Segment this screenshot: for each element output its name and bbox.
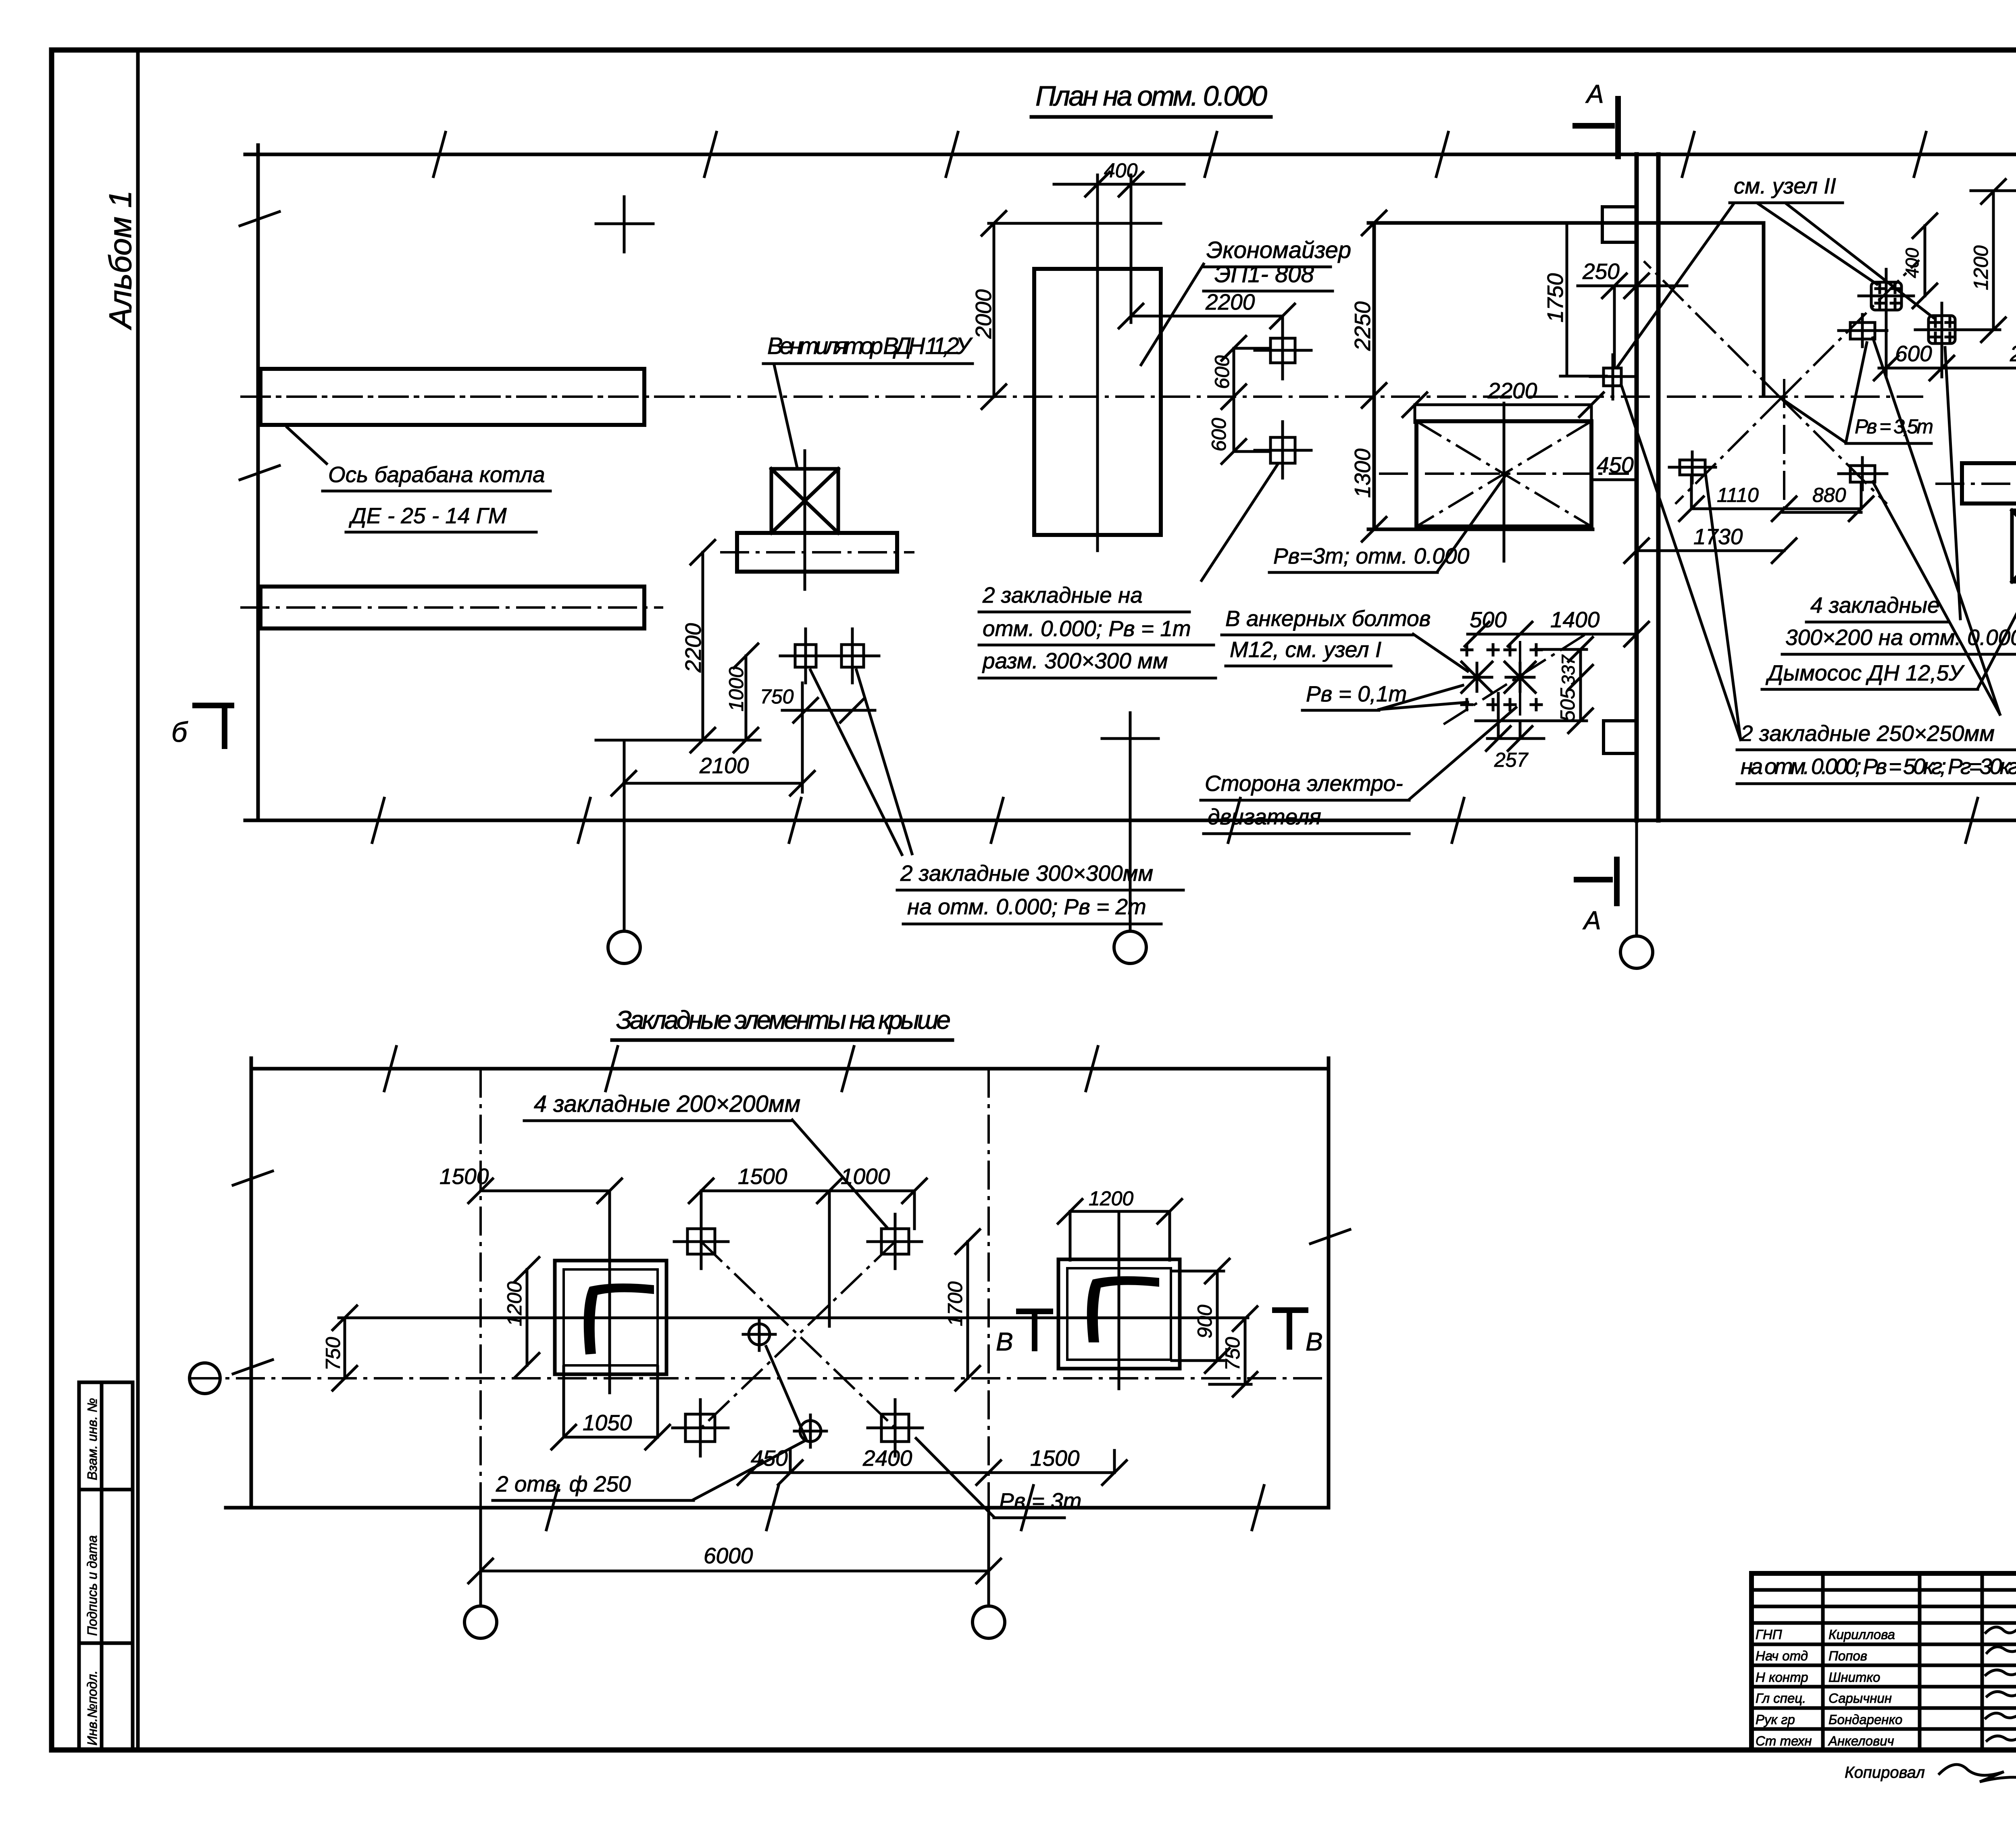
roof plate SW bbox=[673, 1400, 728, 1456]
sm uzel underline bbox=[1730, 202, 1843, 204]
dim 2250 ticks bbox=[1362, 211, 1386, 541]
dim 1110 880 line bbox=[1679, 497, 1873, 521]
svg-text:План на отм. 0.000: План на отм. 0.000 bbox=[1035, 80, 1267, 112]
big plate 1 centerline bbox=[608, 1191, 611, 1393]
svg-text:2200: 2200 bbox=[1487, 378, 1537, 403]
2 zakl underline1 bbox=[1737, 749, 2016, 751]
bolt cluster axis diagonal bbox=[1441, 635, 1585, 726]
svg-text:на отм. 0.000; Рв = 50кг; Рг: на отм. 0.000; Рв = 50кг; Рг=30кг bbox=[1741, 754, 2016, 779]
svg-text:750: 750 bbox=[322, 1337, 344, 1371]
dim 900 vertical plate2 bbox=[1205, 1259, 1229, 1373]
extension line right of 400 bbox=[1130, 175, 1133, 322]
svg-text:2000: 2000 bbox=[971, 289, 996, 339]
plan title underline bbox=[1031, 115, 1271, 119]
dim extensions 1110 bbox=[1691, 475, 1861, 509]
svg-text:450: 450 bbox=[751, 1446, 788, 1471]
anchor bolt note underline2 bbox=[1226, 665, 1391, 668]
svg-text:257: 257 bbox=[1494, 749, 1529, 771]
top boundary wall line bbox=[245, 153, 2016, 156]
svg-text:400: 400 bbox=[1902, 248, 1922, 278]
embedded plate right of fan bbox=[827, 629, 879, 683]
Pv 3.5 underline bbox=[1846, 442, 1931, 445]
2 zakl leaders bbox=[1621, 385, 1741, 740]
svg-text:Закладные элементы на крыше: Закладные элементы на крыше bbox=[616, 1005, 951, 1034]
dim 1050 extensions bbox=[564, 1367, 658, 1437]
grid bubble 3 bbox=[1620, 936, 1653, 968]
machine2 horizontal centerline bbox=[1379, 472, 1629, 475]
svg-text:400: 400 bbox=[1104, 159, 1138, 182]
svg-text:Инв.№подл.: Инв.№подл. bbox=[85, 1671, 100, 1746]
roof bottom boundary bbox=[226, 1506, 1329, 1510]
MAIN PLAN bbox=[240, 79, 2016, 968]
svg-text:600: 600 bbox=[1208, 418, 1230, 451]
svg-text:1200: 1200 bbox=[1089, 1187, 1133, 1210]
note underline1 bbox=[979, 611, 1189, 614]
dim 750 vertical bbox=[333, 1306, 357, 1390]
svg-text:отм. 0.000; Рв = 1т: отм. 0.000; Рв = 1т bbox=[983, 616, 1191, 641]
stamp outline bbox=[79, 1382, 133, 1750]
svg-text:двигателя: двигателя bbox=[1208, 804, 1321, 829]
section mark B left: bar bbox=[192, 705, 234, 749]
fan base rectangle bbox=[737, 533, 897, 572]
anchor note leader bbox=[1413, 634, 1468, 671]
note storona underline2 bbox=[1204, 832, 1409, 835]
economizer vertical centerline bbox=[1096, 175, 1099, 551]
small plate P4 bbox=[1839, 458, 1887, 490]
dim 250 extension bbox=[1613, 286, 1616, 368]
4 zakladnye underline2 bbox=[1782, 653, 2016, 656]
4 zakladnye leader bbox=[1945, 347, 1960, 619]
grid crosshair column 2 bbox=[1102, 713, 1158, 766]
roof plate NE bbox=[868, 1214, 922, 1269]
dim 400 line bbox=[1054, 172, 1184, 196]
roof left bubble bbox=[190, 1363, 220, 1394]
extension line top of 2000 bbox=[989, 222, 1161, 225]
exhauster X body bbox=[2012, 510, 2016, 582]
svg-text:Рв = 0,1т: Рв = 0,1т bbox=[1306, 681, 1407, 706]
svg-text:1500: 1500 bbox=[439, 1164, 489, 1189]
svg-text:Ст техн: Ст техн bbox=[1756, 1733, 1812, 1748]
svg-text:2250: 2250 bbox=[1350, 301, 1375, 351]
svg-text:Дымосос ДН 12,5У: Дымосос ДН 12,5У bbox=[1765, 660, 1965, 685]
svg-text:на отм. 0.000; Рв = 2т: на отм. 0.000; Рв = 2т bbox=[907, 894, 1146, 919]
main horizontal axis dash-dot bbox=[242, 395, 1923, 398]
svg-text:Рук гр: Рук гр bbox=[1756, 1712, 1795, 1727]
economizer label underline2 bbox=[1204, 290, 1333, 293]
roof top boundary bbox=[251, 1067, 1329, 1071]
small plate P3 bbox=[1839, 314, 1887, 347]
dim 600 600 ticks bbox=[1234, 348, 1270, 451]
hole 1 bbox=[743, 1318, 775, 1350]
svg-text:250: 250 bbox=[1582, 259, 1620, 284]
machine2 X diagonals dash-dot bbox=[1416, 421, 1591, 526]
svg-text:1500: 1500 bbox=[1030, 1446, 1080, 1471]
grid bubble 1 bbox=[608, 931, 640, 963]
boiler drum axis lower bbox=[240, 606, 663, 609]
roof axis column A solid to bubble bbox=[479, 1508, 482, 1606]
roof left slashes bbox=[233, 1171, 273, 1374]
svg-text:4 закладные: 4 закладные bbox=[1810, 593, 1940, 618]
svg-text:1700: 1700 bbox=[944, 1282, 966, 1326]
svg-text:1500: 1500 bbox=[738, 1164, 787, 1189]
svg-text:2200: 2200 bbox=[1205, 289, 1255, 314]
roof plate NW bbox=[674, 1214, 728, 1269]
plate at wall top bbox=[1590, 355, 1635, 399]
svg-text:2100: 2100 bbox=[699, 753, 749, 778]
dim extensions bottom bbox=[790, 1450, 1114, 1473]
svg-text:В: В bbox=[996, 1327, 1013, 1356]
dim 1500 left line bbox=[469, 1179, 622, 1203]
dim 2000 extension bbox=[1971, 189, 2016, 192]
dim 1200 tick bbox=[1955, 329, 2000, 331]
svg-text:Бондаренко: Бондаренко bbox=[1829, 1712, 1902, 1727]
bolt cluster left X bbox=[1462, 662, 1492, 693]
dim 337 extension lines bbox=[1476, 649, 1587, 721]
svg-text:Ось барабана котла: Ось барабана котла bbox=[328, 462, 545, 487]
PLAN RIGHT PART bbox=[171, 154, 2016, 915]
Pv 3.5 leaders bbox=[1782, 343, 1867, 443]
stamp row dividers bbox=[79, 1488, 133, 1492]
leader to plate note 1 bbox=[810, 670, 902, 855]
interior wall line right bbox=[1656, 154, 1661, 820]
Pv 3t underline bbox=[994, 1517, 1064, 1519]
dim 1730 line bbox=[1624, 539, 1796, 563]
section mark A top: tick bbox=[1572, 96, 1618, 159]
title block left rows bbox=[1752, 1588, 2016, 1592]
section V marker left: bar bbox=[1016, 1311, 1053, 1351]
big plate 1 corner mark bbox=[584, 1284, 654, 1354]
dymosos leader bbox=[1978, 572, 2016, 689]
leader from lower plate to note bbox=[1202, 464, 1278, 580]
drum axis label underline1 bbox=[323, 490, 550, 493]
dim 1050 line bbox=[552, 1425, 670, 1449]
fan label leader bbox=[774, 365, 797, 468]
dim 750 line bbox=[782, 698, 875, 722]
svg-text:Сторона электро-: Сторона электро- bbox=[1205, 771, 1403, 796]
dim 750 vertical plate2 bbox=[1233, 1307, 1257, 1396]
fan VDN impeller square with X bbox=[771, 469, 838, 533]
svg-text:600: 600 bbox=[1895, 341, 1932, 366]
plate left of wall bbox=[1669, 452, 1716, 483]
fan base centerline bbox=[720, 551, 914, 553]
roof bubble A bbox=[464, 1606, 497, 1638]
storona leader bbox=[1409, 707, 1516, 799]
signatures bbox=[1986, 1627, 2016, 1741]
hole 2 bbox=[794, 1415, 827, 1447]
roof axis column B dashdot bbox=[987, 1069, 990, 1508]
grid bubble 2 bbox=[1114, 931, 1146, 963]
drum axis label underline2 bbox=[346, 531, 536, 534]
fan vertical centerline bbox=[804, 451, 806, 589]
svg-text:Взам. инв. №: Взам. инв. № bbox=[85, 1398, 100, 1480]
svg-text:2 отв. ф 250: 2 отв. ф 250 bbox=[496, 1471, 631, 1496]
note underline bbox=[1269, 571, 1437, 574]
svg-text:В: В bbox=[1306, 1327, 1323, 1356]
boiler drum axis upper bbox=[240, 395, 714, 398]
left boundary axis bbox=[256, 145, 260, 820]
dim 450 2400 1500 line bbox=[738, 1461, 1127, 1485]
svg-text:1000: 1000 bbox=[725, 667, 748, 712]
dim 2200 economizer line bbox=[1119, 304, 1295, 328]
svg-text:Н контр: Н контр bbox=[1756, 1670, 1808, 1685]
TITLE BLOCK bbox=[1752, 1573, 2016, 1788]
LEFT STAMP bbox=[79, 1382, 133, 1750]
Pv 3t leader bbox=[916, 1438, 994, 1517]
title block verticals bbox=[1821, 1573, 1825, 1750]
interior wall line left bbox=[1635, 154, 1639, 820]
wall pilaster top bbox=[1602, 207, 1637, 242]
big plate 1 outer bbox=[555, 1261, 666, 1374]
plate note underline1 bbox=[897, 889, 1183, 892]
dim 1200 plate1 vertical bbox=[515, 1257, 539, 1377]
svg-text:1000: 1000 bbox=[841, 1164, 890, 1189]
dim 2200 machine2 line bbox=[1403, 393, 1604, 417]
svg-text:А: А bbox=[1585, 79, 1604, 108]
fan label underline bbox=[763, 362, 973, 365]
foundation step horizontal bbox=[1560, 375, 1606, 378]
svg-text:1750: 1750 bbox=[1543, 273, 1568, 322]
svg-text:ЭП1- 808: ЭП1- 808 bbox=[1214, 261, 1314, 287]
anchor bolt note underline1 bbox=[1222, 634, 1413, 637]
dim 1200 plate2 extensions bbox=[1070, 1211, 1170, 1260]
svg-text:Сарычнин: Сарычнин bbox=[1829, 1691, 1892, 1706]
economizer body bbox=[1034, 269, 1161, 535]
bottom boundary line bbox=[245, 819, 2016, 822]
dim 257 extensions bbox=[1498, 693, 1520, 739]
big plate 2 corner mark bbox=[1087, 1276, 1159, 1342]
machine2 foundation left line bbox=[1372, 223, 1376, 529]
svg-text:337: 337 bbox=[1558, 654, 1579, 685]
dim 880 lower line bbox=[1783, 511, 1861, 514]
svg-text:880: 880 bbox=[1812, 484, 1846, 506]
svg-text:2200: 2200 bbox=[681, 623, 706, 673]
svg-text:2 закладные на: 2 закладные на bbox=[982, 583, 1143, 608]
left axis slashes bbox=[240, 212, 279, 480]
svg-text:2400: 2400 bbox=[862, 1446, 912, 1471]
big plate 2 outer bbox=[1058, 1259, 1180, 1369]
big plate 1 inner bbox=[564, 1269, 658, 1365]
svg-text:ГНП: ГНП bbox=[1756, 1627, 1782, 1642]
inner left column line bbox=[136, 50, 140, 1750]
dymosos underline bbox=[1762, 688, 1978, 691]
dim 400 vertical bbox=[1913, 214, 1937, 308]
dim 2000 economizer vertical bbox=[982, 211, 1006, 409]
machine2 vertical centerline bbox=[1503, 403, 1506, 561]
svg-text:Рв=3т; отм. 0.000: Рв=3т; отм. 0.000 bbox=[1273, 543, 1470, 568]
exhauster base rect bbox=[1962, 463, 2016, 504]
roof right boundary bbox=[1327, 1058, 1331, 1508]
machine2 dim extensions bbox=[1415, 405, 1591, 422]
dim 1700 vertical bbox=[956, 1230, 980, 1390]
Pv leaders bbox=[1379, 685, 1468, 709]
svg-text:2 закладные 250×250мм: 2 закладные 250×250мм bbox=[1740, 721, 1995, 746]
dim 1200 vertical bbox=[1981, 179, 2006, 342]
machine2 foundation right line bbox=[1762, 223, 1766, 395]
svg-text:6000: 6000 bbox=[704, 1543, 753, 1568]
dim extensions top bbox=[610, 1191, 914, 1326]
PLAN CENTER PART bbox=[242, 154, 1923, 834]
crosshair near column 1 top bbox=[596, 197, 653, 252]
svg-text:Попов: Попов bbox=[1829, 1648, 1867, 1663]
roof top slashes bbox=[384, 1047, 1098, 1091]
long leader from plates to note bbox=[1873, 338, 2000, 714]
drum axis label leader bbox=[287, 427, 327, 464]
roof axis column A dashdot bbox=[479, 1069, 482, 1508]
plate note underline2 bbox=[903, 923, 1161, 926]
machine2 foundation top line bbox=[1368, 221, 1764, 225]
ROOF DRAWING bbox=[190, 1005, 1350, 1638]
leader to plate note 2 bbox=[856, 670, 912, 854]
bolt cluster plus marks bbox=[1462, 645, 1541, 710]
embedded plate left of fan bbox=[780, 629, 831, 683]
roof X diagonals dashdot bbox=[701, 1242, 895, 1428]
note storona underline1 bbox=[1201, 799, 1409, 802]
svg-text:Подпись и дата: Подпись и дата bbox=[85, 1535, 100, 1636]
svg-text:505: 505 bbox=[1556, 688, 1579, 722]
svg-text:450: 450 bbox=[1597, 452, 1634, 477]
dim 250 line bbox=[1578, 274, 1687, 298]
bottom boundary slashes bbox=[372, 798, 2016, 843]
svg-text:В анкерных болтов: В анкерных болтов bbox=[1225, 606, 1431, 631]
dim base line at 1836 bbox=[596, 739, 760, 742]
dim 2100 extension bbox=[801, 683, 804, 792]
dim 600 2450 line bbox=[1874, 356, 2016, 380]
stamp divider vertical bbox=[100, 1382, 104, 1750]
long thin line through plates bbox=[339, 1317, 1248, 1319]
svg-text:Кириллова: Кириллова bbox=[1829, 1627, 1895, 1642]
grid line column 1 bbox=[623, 740, 626, 931]
boiler drum bar upper bbox=[260, 369, 644, 425]
dim 257 line bbox=[1486, 726, 1544, 751]
title block outline bbox=[1752, 1573, 2016, 1750]
svg-text:ДЕ - 25 - 14 ГМ: ДЕ - 25 - 14 ГМ bbox=[348, 503, 507, 528]
roof horizontal axis dashdot bbox=[190, 1377, 1329, 1379]
svg-text:Рв = 3т: Рв = 3т bbox=[999, 1488, 1081, 1513]
2 otv leaders bbox=[694, 1346, 806, 1500]
svg-text:750: 750 bbox=[1221, 1337, 1244, 1371]
note underline3 bbox=[979, 677, 1216, 680]
4 zakl leader bbox=[792, 1120, 887, 1228]
economizer label underline1 bbox=[1203, 266, 1331, 268]
svg-text:600: 600 bbox=[1211, 355, 1233, 389]
svg-text:М12, см. узел I: М12, см. узел I bbox=[1230, 637, 1381, 662]
plate column line bbox=[1281, 316, 1284, 341]
wall notch lower bbox=[1604, 721, 1637, 753]
svg-text:Экономайзер: Экономайзер bbox=[1206, 237, 1351, 263]
svg-text:1730: 1730 bbox=[1693, 524, 1743, 549]
big plate 2 inner bbox=[1067, 1268, 1171, 1360]
svg-text:Копировал: Копировал bbox=[1845, 1764, 1925, 1781]
plate2 dim ticks bbox=[1172, 1271, 1251, 1384]
roof title underline bbox=[612, 1038, 952, 1042]
svg-text:Анкелович: Анкелович bbox=[1828, 1733, 1894, 1748]
big plate 2 centerline bbox=[1118, 1211, 1120, 1389]
svg-text:А: А bbox=[1582, 906, 1601, 935]
dim 6000 line bbox=[469, 1559, 1001, 1583]
svg-text:500: 500 bbox=[1470, 607, 1507, 632]
svg-text:1050: 1050 bbox=[583, 1410, 632, 1435]
economizer label leader bbox=[1141, 264, 1204, 365]
dim 500 1400 line bbox=[1465, 622, 1649, 646]
dim 450 wall line bbox=[1591, 468, 1637, 492]
roof plate SE bbox=[868, 1400, 923, 1456]
svg-text:Альбом 1: Альбом 1 bbox=[102, 190, 138, 330]
bolt cluster right X bbox=[1505, 662, 1535, 693]
smoke exhauster vertical axis bbox=[1783, 379, 1785, 509]
smoke exhauster X axes dash-dot bbox=[1644, 260, 1919, 504]
grid line column 3 below wall bbox=[1635, 820, 1638, 936]
roof bubble B bbox=[973, 1606, 1005, 1638]
boiler drum bar lower bbox=[260, 587, 644, 628]
section V marker right: bar bbox=[1272, 1310, 1308, 1350]
svg-text:1200: 1200 bbox=[503, 1282, 526, 1326]
svg-text:Нач отд: Нач отд bbox=[1756, 1648, 1808, 1663]
dim 2200 vertical line bbox=[691, 540, 715, 752]
4 zakl underline bbox=[524, 1119, 792, 1122]
dim 1500 1000 right line bbox=[689, 1179, 927, 1203]
anchor plate P2 bbox=[1915, 303, 1968, 356]
roof bottom slashes bbox=[546, 1486, 1264, 1530]
svg-text:1400: 1400 bbox=[1550, 607, 1600, 632]
4 zakladnye underline1 bbox=[1806, 621, 1947, 624]
dim 337 505 vertical bbox=[1568, 637, 1593, 733]
section mark A bottom: tick bbox=[1574, 857, 1617, 906]
svg-text:Вентилятор ВДН 11,2У: Вентилятор ВДН 11,2У bbox=[767, 333, 973, 359]
svg-text:Шнитко: Шнитко bbox=[1829, 1670, 1880, 1685]
2 otv underline bbox=[493, 1499, 694, 1502]
svg-text:900: 900 bbox=[1193, 1305, 1216, 1338]
foundation step vertical bbox=[1566, 223, 1568, 376]
svg-text:Рв = 3,5т: Рв = 3,5т bbox=[1855, 415, 1933, 438]
embedded plate upper near economizer bbox=[1255, 322, 1311, 379]
grid line column 2 bbox=[1129, 764, 1132, 931]
top boundary slashes bbox=[433, 132, 2016, 177]
note underline2 bbox=[979, 644, 1214, 647]
svg-text:1300: 1300 bbox=[1350, 448, 1375, 498]
bolt cluster axis vertical bbox=[1519, 641, 1521, 716]
machine2 body bbox=[1416, 421, 1591, 526]
dim 1200 plate2 line bbox=[1058, 1199, 1182, 1223]
svg-text:Гл спец.: Гл спец. bbox=[1756, 1691, 1806, 1706]
note Pv underline bbox=[1302, 709, 1379, 712]
2 zakl underline2 bbox=[1737, 782, 2016, 785]
embedded plate lower near economizer bbox=[1255, 422, 1311, 478]
svg-text:300×200 на отм. 0.000: 300×200 на отм. 0.000 bbox=[1785, 625, 2016, 650]
svg-text:4 закладные 200×200мм: 4 закладные 200×200мм bbox=[534, 1091, 800, 1117]
svg-text:разм. 300×300 мм: разм. 300×300 мм bbox=[982, 648, 1168, 673]
exhauster base centerline bbox=[1935, 483, 2016, 485]
svg-text:1200: 1200 bbox=[1970, 246, 1992, 290]
svg-text:2 закладные 300×300мм: 2 закладные 300×300мм bbox=[900, 861, 1153, 886]
svg-text:1110: 1110 bbox=[1717, 484, 1759, 506]
svg-text:2450: 2450 bbox=[2010, 341, 2016, 366]
dim 600 600 vertical line bbox=[1222, 336, 1246, 464]
roof axis column B solid to bubble bbox=[987, 1508, 990, 1606]
svg-text:750: 750 bbox=[760, 685, 794, 708]
leader to machine2 center bbox=[1437, 474, 1507, 572]
svg-text:см. узел II: см. узел II bbox=[1734, 173, 1836, 198]
machine2 foundation bottom line bbox=[1368, 528, 1593, 531]
dim extensions P1 P2 bbox=[1886, 322, 1942, 377]
anchor plate P1 bbox=[1859, 269, 1914, 322]
dim 2100 line bbox=[612, 771, 814, 795]
roof right slash bbox=[1310, 1230, 1350, 1244]
dim 1000 vertical line bbox=[734, 644, 758, 752]
svg-text:б: б bbox=[171, 716, 188, 748]
roof left boundary bbox=[250, 1058, 253, 1508]
sm uzel leaders bbox=[1617, 204, 1933, 368]
